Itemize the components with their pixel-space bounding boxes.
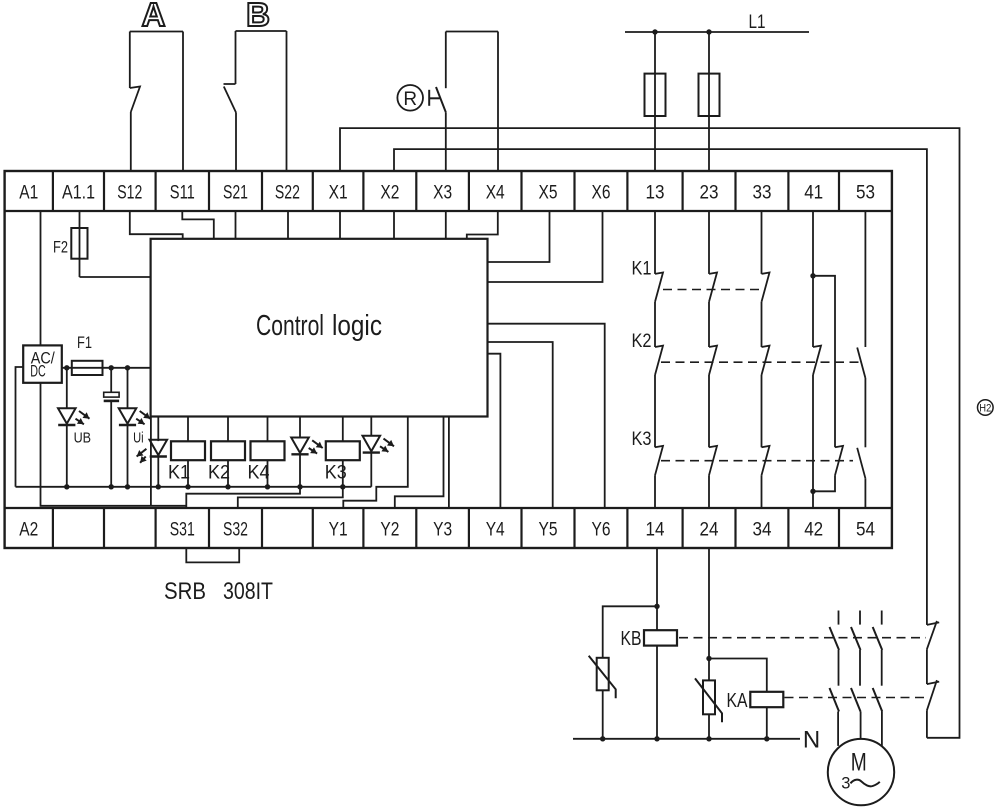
wire AC/DC bottom to control logic [41,384,187,506]
wire X2 stub [393,211,395,239]
wire S11 to control logic [182,211,214,239]
wire X3 stub [445,211,447,239]
node Ui branch [125,365,130,370]
internal 0V bus [16,486,372,488]
svg-text:N: N [803,726,820,753]
line L1 [625,31,809,33]
svg-text:Y4: Y4 [486,520,505,541]
LED V3 [157,417,159,442]
svg-text:S21: S21 [223,183,248,204]
node UB-bus [64,484,69,489]
node capacitor branch [109,365,114,370]
node RV1-N [600,736,605,741]
svg-text:13: 13 [646,183,665,204]
wire Y5 output [488,342,553,508]
svg-text:23: 23 [700,183,719,204]
relay coil KA [709,659,767,692]
node C1-bus [109,484,114,489]
lamp H2 circle [978,400,994,416]
terminal dividers bottom row [52,508,54,548]
contactor KB contact phase 3 [881,611,883,625]
svg-text:Y3: Y3 [433,520,452,541]
svg-text:14: 14 [646,520,665,541]
contactor KB contact phase 1 [838,611,840,625]
svg-text:K4: K4 [248,463,270,484]
wire F2 to control logic [80,276,151,278]
top terminal strip line [5,210,892,212]
svg-text:K1: K1 [168,463,190,484]
node KB branch [654,604,659,609]
contact column 41/42 [812,211,814,276]
svg-text:Control: Control [256,310,324,342]
svg-text:UB: UB [74,431,92,447]
line N [573,738,800,740]
node 24-N [706,736,711,741]
svg-text:A1.1: A1.1 [62,183,95,204]
svg-text:S22: S22 [275,183,300,204]
svg-text:K3: K3 [632,429,652,450]
relay coil K3 [342,417,344,442]
svg-text:53: 53 [856,183,875,204]
wire AC/DC output [62,367,151,369]
svg-text:M: M [851,749,867,777]
wire S32 internal [238,487,343,508]
svg-text:S32: S32 [223,520,248,541]
svg-text:S12: S12 [117,183,142,204]
wire S31 internal [186,487,300,508]
relay coil KB [656,606,658,630]
terminal dividers top row [52,171,54,211]
linkage dashes K3 [661,460,853,462]
control logic box [151,239,488,417]
svg-text:X6: X6 [592,183,611,204]
node Ui-bus [125,484,130,489]
contact branch 42 (K3) [813,276,835,448]
fuse F2 [79,211,81,277]
LED Ui [127,368,129,408]
svg-text:logic: logic [332,310,382,342]
capacitor C1 [110,368,112,393]
LED V4 [299,417,301,438]
node KB-N [654,736,659,741]
svg-text:F1: F1 [77,333,92,352]
svg-text:K3: K3 [325,463,347,484]
relay body outline [5,171,892,548]
switch A (to S12/S11) [130,31,183,33]
svg-text:F2: F2 [53,238,68,257]
contact column 709 [708,211,710,274]
svg-text:K2: K2 [632,331,652,352]
LED V5 [370,417,372,436]
svg-text:Y5: Y5 [539,520,558,541]
wire AC/DC left to bus [16,367,24,487]
svg-text:X3: X3 [433,183,452,204]
svg-text:S11: S11 [170,183,195,204]
svg-text:3: 3 [841,775,850,793]
node K3-bus [340,484,345,489]
bottom terminal strip line [5,507,892,509]
contactor KA contact phase 1 [838,650,840,686]
jumper S31-S32 [186,548,239,562]
linkage dashes K1 [663,289,763,291]
reset button R actuator [428,90,430,106]
node L1-23 [706,29,711,34]
svg-text:R: R [403,89,417,110]
linkage dashes KB [679,637,926,639]
svg-text:K1: K1 [632,259,652,280]
reset button R circle [397,85,423,111]
wire 14 to KB [656,548,658,606]
AC/DC converter U1 [23,345,62,382]
node V4-bus [297,484,302,489]
contact column 655 [654,211,656,274]
wire Y4 output [488,354,501,508]
wire X2 feedback return [394,149,927,625]
svg-text:42: 42 [804,520,823,541]
node KA branch [706,656,711,661]
reset button R contact blade [436,87,446,112]
LED UB [66,368,68,408]
svg-text:Ui: Ui [133,431,144,447]
feedback contact KB (NC) [927,621,939,649]
svg-text:33: 33 [753,183,772,204]
wire Y2 output [395,417,444,509]
linkage dashes KA [785,697,927,699]
wire control logic bottom-left stub [150,417,152,506]
node K4-bus [265,484,270,489]
svg-text:308IT: 308IT [223,578,273,605]
motor M 3~ [828,739,894,805]
svg-text:Y6: Y6 [592,520,611,541]
contactor KA contact phase 2 [859,650,861,686]
switch B (to S21/S22) [236,30,287,32]
contactor KA contact phase 3 [881,650,883,686]
svg-text:SRB: SRB [164,578,206,605]
svg-text:54: 54 [856,520,875,541]
wire Y1 output [343,417,408,509]
svg-text:Y2: Y2 [380,520,399,541]
wire S21 stub [235,211,237,239]
svg-text:K2: K2 [208,463,230,484]
svg-text:S31: S31 [170,520,195,541]
node UB branch [64,365,69,370]
linkage dashes K2 [661,361,859,363]
feedback contact KA (NC) [927,680,939,710]
wire X1 stub [339,211,341,239]
svg-text:H2: H2 [979,403,991,415]
fuse to terminal 13 [654,32,656,171]
svg-text:X1: X1 [329,183,348,204]
fuse F1 [72,361,103,375]
reset button frame (X3-X4) [446,31,498,33]
svg-text:X5: X5 [539,183,558,204]
svg-text:X2: X2 [380,183,399,204]
svg-text:B: B [246,0,270,33]
svg-text:A1: A1 [19,183,38,204]
node K1-bus [185,484,190,489]
wire S12 to control logic [130,211,183,239]
svg-text:41: 41 [804,183,823,204]
wire Y6 output [488,324,605,508]
contactor KB contact phase 2 [859,611,861,625]
relay coil K2 [227,417,229,442]
svg-text:KA: KA [727,690,749,712]
node K2-bus [225,484,230,489]
svg-text:X4: X4 [486,183,505,204]
motor feed wires [837,712,839,746]
varistor RV1 [603,606,657,658]
fuse to terminal 23 [708,32,710,171]
relay coil K1 [187,417,189,442]
node V3-bus [156,484,161,489]
wire A1 to AC/DC [40,211,42,346]
wire X5 to control logic [488,211,550,262]
wire Y3 output [448,417,450,509]
node KA-N [764,736,769,741]
svg-text:DC: DC [30,363,46,381]
wire 24 to KA [708,548,710,680]
contact column 53/54 [864,211,866,347]
wire X4 to control logic [467,211,498,239]
varistor RV2 [703,680,715,714]
svg-text:Y1: Y1 [329,520,348,541]
svg-text:24: 24 [700,520,719,541]
relay coil K4 [267,417,269,442]
svg-text:34: 34 [753,520,772,541]
wire S22 stub [287,211,289,239]
svg-text:L1: L1 [749,12,766,33]
wire X1 feedback loop to H2 branch [340,128,960,738]
svg-text:A: A [142,0,166,33]
svg-text:KB: KB [621,628,642,650]
node L1-13 [652,29,657,34]
contact column 761 [761,211,763,274]
wire X6 to control logic [488,211,603,282]
svg-text:A2: A2 [19,520,38,541]
